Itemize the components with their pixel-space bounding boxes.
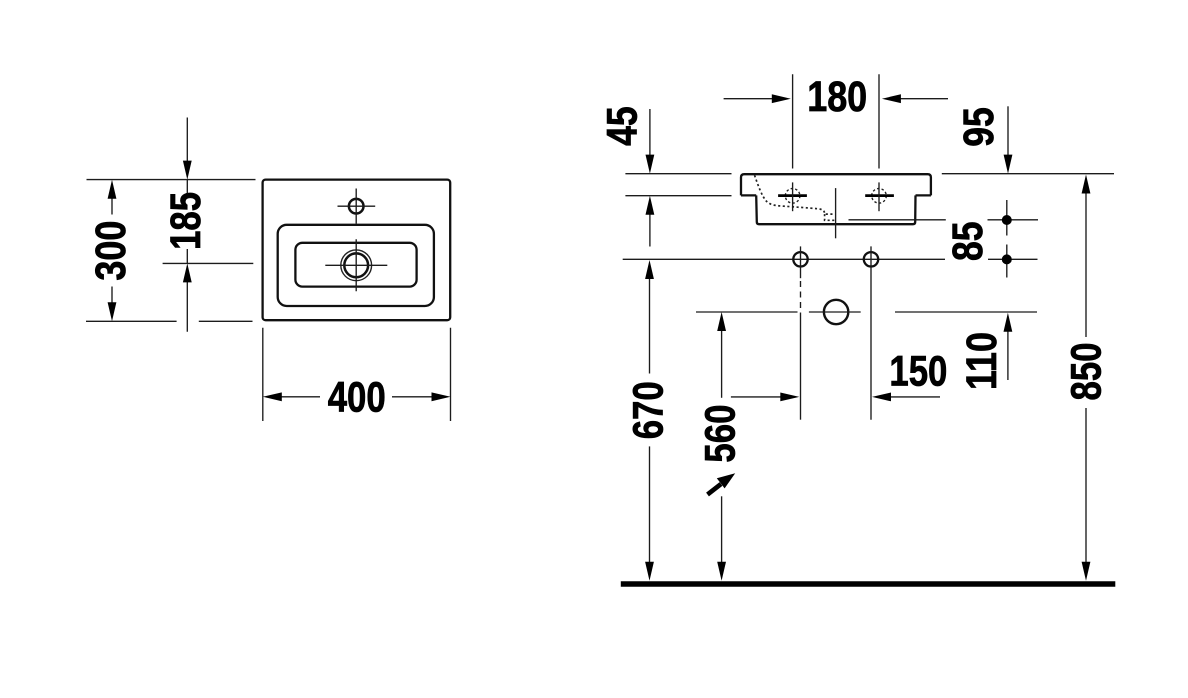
reference line 185 bottom <box>163 262 254 264</box>
dimension 85 dot upper <box>1002 215 1012 225</box>
faucet hole right (dashed, front) <box>872 189 887 204</box>
svg-text:95: 95 <box>955 107 1003 147</box>
dimension 670 lower line and floor arrow <box>649 446 651 562</box>
rim top extension line right <box>942 173 1114 175</box>
dimension 185 line and bottom arrow <box>186 180 188 332</box>
dimension 560 lower line and floor arrow <box>721 496 723 562</box>
basin bowl bottom (plan) <box>295 243 416 287</box>
faucet hole right crosshair bar <box>865 194 894 197</box>
svg-text:180: 180 <box>807 73 867 121</box>
body bottom extension line to dots <box>849 219 1039 221</box>
svg-text:185: 185 <box>162 192 210 250</box>
dimension 850 top arrow <box>1085 193 1087 337</box>
drain horizontal line <box>696 311 1037 313</box>
basin body (front) <box>756 195 915 224</box>
fixing hole right vertical <box>870 246 872 419</box>
drain inner circle (plan) <box>344 253 368 277</box>
faucet hole left (dashed, front) <box>785 189 800 204</box>
svg-text:150: 150 <box>889 348 947 396</box>
svg-text:45: 45 <box>598 106 646 146</box>
faucet hole left vertical <box>792 182 794 211</box>
dimension 850 lower line and floor arrow <box>1085 408 1087 562</box>
dimension 150 right arrow <box>890 396 940 398</box>
svg-text:400: 400 <box>328 374 386 422</box>
dimension 95 line <box>1007 106 1009 156</box>
basin inner rim (plan) <box>278 225 434 306</box>
faucet hole left crosshair bar <box>778 194 807 197</box>
extension line top (plan) <box>87 179 256 181</box>
dimension 85 dot lower <box>1002 254 1012 264</box>
dimension 180 arrows <box>724 98 948 100</box>
dimension 670 top arrow <box>649 278 651 374</box>
overflow dashed line <box>755 175 835 220</box>
faucet hole circle (plan) <box>349 199 364 214</box>
dimension 300 line <box>111 198 113 303</box>
dimension 45 bottom arrow <box>649 214 651 247</box>
basin rim (front) <box>741 174 931 195</box>
faucet hole right vertical <box>878 182 880 211</box>
rim bottom extension line left <box>625 195 731 197</box>
drain outer circle (plan) <box>341 250 372 281</box>
rim top extension line left <box>625 173 731 175</box>
svg-text:850: 850 <box>1063 343 1111 401</box>
dimension 85 dots line <box>1006 200 1008 278</box>
drain circle (front) <box>824 300 848 324</box>
fixing hole right <box>864 252 878 266</box>
svg-text:560: 560 <box>697 405 745 463</box>
floor line <box>621 581 1116 587</box>
dimension 110 line <box>1007 331 1009 380</box>
basin rim bottom edge stubs <box>741 194 931 196</box>
fixing holes extension line <box>623 258 1038 260</box>
svg-text:670: 670 <box>625 381 673 439</box>
drain crosshair <box>325 239 387 291</box>
dimension 180 extension lines <box>793 74 879 168</box>
svg-text:85: 85 <box>944 221 992 261</box>
dimension 400 line <box>281 396 433 398</box>
center line (front) <box>835 188 837 238</box>
dimension 400 extension lines <box>263 328 451 421</box>
dimension 185 top arrow <box>186 118 188 162</box>
fixing hole left vertical <box>800 246 802 278</box>
svg-text:300: 300 <box>87 221 135 281</box>
dimension 560 top arrow <box>721 330 723 398</box>
fixing hole left <box>793 252 807 266</box>
faucet hole crosshair <box>338 189 376 224</box>
svg-text:110: 110 <box>958 332 1006 390</box>
dimension 45 top arrow <box>649 109 651 156</box>
dimension 150 left arrow <box>731 396 781 398</box>
basin outer rim (plan) <box>263 180 451 321</box>
dimension 560 diagonal arrow <box>708 484 722 495</box>
extension line bottom (plan) <box>86 320 253 322</box>
